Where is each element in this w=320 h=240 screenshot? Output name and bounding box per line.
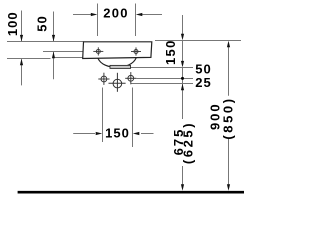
arrow chain rim down (181, 34, 184, 41)
wire dim-200 right tail (142, 14, 163, 16)
wire chain middle segment (182, 68, 184, 119)
wire dim-100 lower tail (21, 59, 23, 85)
wire chain bottom segment (182, 166, 184, 185)
arrow dim-200 right (136, 13, 143, 16)
wire dim-50-left upper tail (53, 12, 55, 42)
wall hole left (98, 73, 109, 85)
basin body (83, 42, 152, 59)
arrow dim-150-bottom left (96, 132, 103, 135)
wire dim-150-bottom left tail (73, 133, 95, 135)
wire rim line right (155, 40, 241, 42)
wall hole right (125, 72, 136, 84)
wire chain 150 segment (182, 41, 184, 62)
tap hole mark right (131, 47, 141, 55)
svg-text:(625): (625) (181, 121, 196, 164)
wire basin-bottom extension left inner (55, 57, 83, 59)
wire ext-200 right (135, 4, 137, 37)
arrow dim-100 down (20, 35, 23, 42)
wire ext-200 left (97, 4, 99, 37)
svg-text:100: 100 (5, 11, 20, 36)
arrow chain lineC up (181, 84, 184, 91)
wire dim-200 left tail (73, 14, 92, 16)
wire basin-bottom extension left outer (7, 58, 51, 60)
arrow dim-50-left up (52, 52, 55, 59)
arrow dim-100 up (20, 59, 23, 65)
drain rectangle (110, 65, 131, 68)
wall hole middle (109, 73, 126, 92)
wire chain top tail (182, 15, 184, 34)
wire dim-900 upper segment (228, 47, 230, 96)
svg-text:50: 50 (35, 15, 50, 31)
wire line B right-hole level (137, 78, 194, 80)
wire dim-50-left lower tail (53, 52, 55, 79)
wire ext-150-bottom right (132, 88, 134, 148)
arrow chain lineA down (181, 61, 184, 68)
wire ext-150-bottom left (102, 88, 104, 143)
tap hole mark left (93, 47, 103, 55)
wire tap-level extension left (43, 51, 83, 53)
wire dim-100 upper tail (21, 11, 23, 42)
arrow dim-150-bottom right (133, 132, 140, 135)
bowl arc (98, 58, 136, 68)
arrow dim-675 floor down (181, 184, 184, 191)
arrow dim-50-left down (52, 35, 55, 42)
wire line A drain level (127, 67, 193, 69)
junction dot on line B (181, 77, 184, 80)
wire dim-150-bottom right tail (141, 133, 154, 135)
wire dim-900 lower segment (228, 138, 230, 185)
arrow dim-900 floor down (227, 184, 230, 191)
floor line (18, 191, 244, 194)
svg-text:150: 150 (163, 39, 178, 65)
svg-text:25: 25 (195, 75, 211, 90)
wire rim-top extension left (7, 41, 84, 43)
arrow dim-200 left (91, 13, 98, 16)
svg-text:150: 150 (105, 126, 130, 141)
svg-text:(850): (850) (220, 96, 235, 139)
arrow dim-900 rim up (227, 41, 230, 48)
wire line C middle-hole level (131, 83, 193, 85)
svg-text:200: 200 (103, 5, 129, 20)
